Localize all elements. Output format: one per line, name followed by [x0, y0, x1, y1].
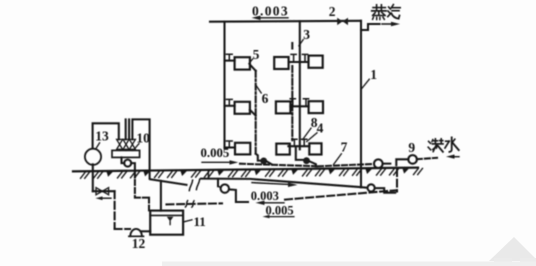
pipe below device 13: [92, 164, 94, 191]
radiator L3 branch: [225, 146, 236, 148]
slope label 0.003 (bottom): [251, 189, 279, 203]
header valve b: [123, 139, 129, 144]
header valve a: [117, 139, 123, 144]
steam main (top horizontal, slope 0.003): [210, 20, 361, 23]
header valve c: [129, 139, 135, 144]
return flow arrow (pointing left): [263, 202, 284, 204]
below-ground condensate return (dashed, to tank): [167, 203, 223, 204]
svg-text:2: 2: [329, 4, 336, 19]
slope label 0.005 (left): [201, 146, 230, 160]
radiator L1 branch: [225, 60, 235, 62]
flow arrow (pointing left): [101, 197, 111, 199]
trap on tank branch: [221, 184, 229, 192]
branch step down: [229, 189, 248, 202]
pipe break on return: [185, 201, 194, 208]
label 3 leader: [299, 40, 303, 46]
svg-text:0.003: 0.003: [251, 189, 279, 203]
row M1 pipe: [289, 61, 309, 63]
slope arrow (pointing right): [202, 161, 229, 163]
condensate flow arrow (pointing left): [446, 155, 455, 159]
radiator valve L1: [226, 54, 232, 60]
row M3 pipe: [288, 145, 309, 147]
radiator valves M2: [290, 99, 295, 107]
pipe break symbol on main 7 (offset jog): [189, 179, 199, 190]
valve (below ground, on pump discharge): [93, 190, 115, 192]
label 1: [370, 67, 377, 82]
radiator 5 (L1): [235, 57, 250, 69]
ground-to-main connector: [207, 170, 209, 179]
right loop pipe over to down-main: [132, 119, 149, 178]
radiator L2: [235, 102, 250, 114]
flow arrow on main 7: [252, 183, 288, 185]
label 2: [329, 4, 336, 19]
radiator L3: [235, 143, 250, 155]
dashed pump discharge: [114, 191, 116, 229]
left column drop to seal: [256, 154, 261, 161]
water level mark: [167, 217, 174, 222]
radiator valves M1: [291, 54, 296, 62]
pump on main 7: [368, 184, 375, 191]
steam flow arrow: [382, 23, 394, 25]
svg-text:7: 7: [341, 140, 348, 155]
svg-text:0.005: 0.005: [201, 146, 230, 160]
slope label 0.003 (top): [252, 4, 289, 19]
condensate riser (middle, dash-dot): [291, 66, 293, 141]
label 10 leader: [134, 144, 139, 150]
radiator M1a: [274, 57, 288, 69]
pipe from device 13 to header: [93, 123, 119, 148]
trap on branch: [374, 159, 383, 168]
ground hatch flags: [107, 169, 409, 177]
radiator M3b: [309, 143, 321, 154]
branch to trap 9: [383, 159, 409, 165]
svg-text:13: 13: [95, 129, 109, 144]
drain to below ground: [131, 163, 135, 177]
main 7 end step: [375, 188, 395, 193]
svg-text:9: 9: [408, 140, 415, 155]
header drain elbow: [122, 157, 125, 163]
condensate branch line (dashed): [240, 164, 316, 167]
label 9: [408, 140, 415, 155]
label 5 leader: [249, 59, 253, 64]
pump 12: [130, 229, 142, 236]
radiator M3a: [276, 144, 290, 155]
condensate inlet (dashed): [417, 158, 437, 159]
svg-text:1: 1: [370, 67, 377, 82]
condensate main 7 (left segment to break): [150, 179, 186, 185]
radiator L2 outlet diagonal: [250, 110, 256, 116]
header 10: [112, 150, 140, 157]
outlet stubs above header: [126, 119, 129, 139]
condensate riser stub dash (middle, above row 1): [291, 43, 293, 49]
steam inlet stub (top right): [361, 24, 380, 30]
drop from main to trap: [217, 179, 219, 186]
radiator valves M3: [292, 139, 297, 146]
steam riser 3 (middle column): [299, 21, 301, 149]
radiator L1 outlet diagonal: [250, 65, 256, 71]
slope label 0.005 (bottom): [266, 204, 294, 218]
hydraulic seal (left, filled): [260, 158, 267, 165]
condensate main 7 (right segment): [201, 179, 367, 188]
label 6 leader: [256, 86, 261, 93]
svg-text:12: 12: [132, 236, 146, 251]
ground hatching: [81, 168, 423, 178]
watermark: [162, 237, 536, 266]
svg-text:6: 6: [262, 91, 269, 106]
riser 1 (right vertical steam pipe): [360, 21, 362, 188]
label 1 leader: [362, 79, 370, 88]
text 蒸汽 (steam), drawn strokes: [372, 5, 400, 20]
svg-text:5: 5: [253, 47, 260, 62]
below-ground dashed drop (right): [396, 169, 398, 192]
label 4: [317, 121, 324, 136]
label 8: [311, 115, 318, 130]
label 13: [95, 129, 109, 144]
condensate tank 11: [150, 211, 183, 235]
left steam riser: [223, 22, 225, 148]
label 13 leader: [96, 143, 100, 149]
svg-text:11: 11: [194, 214, 206, 229]
svg-text:3: 3: [303, 27, 310, 42]
condensate riser 6 (left, dash-dot): [255, 71, 257, 154]
seal outlet diagonal: [267, 162, 272, 165]
text 凝水 (condensate), drawn strokes: [428, 137, 459, 152]
label 6: [262, 91, 269, 106]
label 4 leader: [307, 133, 317, 142]
label 10: [136, 131, 150, 146]
label 12: [132, 236, 146, 251]
seal outlet to branch: [310, 162, 316, 167]
hydraulic seal (middle, filled): [303, 157, 310, 164]
label 3: [303, 27, 310, 42]
device 13 (circle): [85, 149, 101, 165]
pump outlet: [141, 230, 150, 232]
svg-text:0.005: 0.005: [266, 204, 294, 218]
row M2 pipe: [290, 105, 308, 107]
label 11 leader: [184, 220, 192, 222]
valve 2 (on steam main): [337, 18, 342, 25]
middle drop to seal: [296, 148, 303, 160]
tank riser from main 7: [160, 181, 162, 211]
radiator M2b: [309, 101, 323, 113]
svg-text:10: 10: [136, 131, 150, 146]
radiator M2a: [276, 101, 291, 113]
drain trap circle: [124, 160, 131, 167]
trap 9: [408, 155, 417, 164]
label 7: [341, 140, 348, 155]
label 8 leader: [303, 128, 311, 139]
ground: [73, 168, 418, 172]
radiator valve L2: [226, 99, 232, 105]
svg-text:4: 4: [317, 121, 324, 136]
slope arrow (top, pointing left): [259, 17, 288, 19]
radiator L2 branch: [225, 105, 235, 107]
radiator valve L3: [226, 141, 232, 148]
radiator M1b: [309, 56, 323, 68]
underline arrow for 0.005: [268, 216, 294, 218]
label 7 leader: [334, 154, 342, 165]
label 5: [253, 47, 260, 62]
label 11: [194, 214, 206, 229]
